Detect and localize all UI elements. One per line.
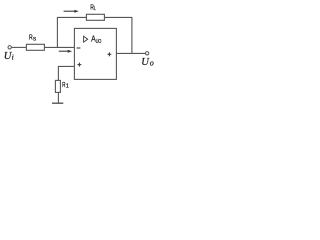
svg-text:o: o [150, 58, 154, 67]
svg-text:1: 1 [66, 83, 69, 89]
svg-text:L: L [94, 6, 96, 12]
svg-text:i: i [12, 52, 14, 61]
svg-text:s: s [33, 35, 36, 42]
svg-text:UO: UO [96, 39, 102, 45]
